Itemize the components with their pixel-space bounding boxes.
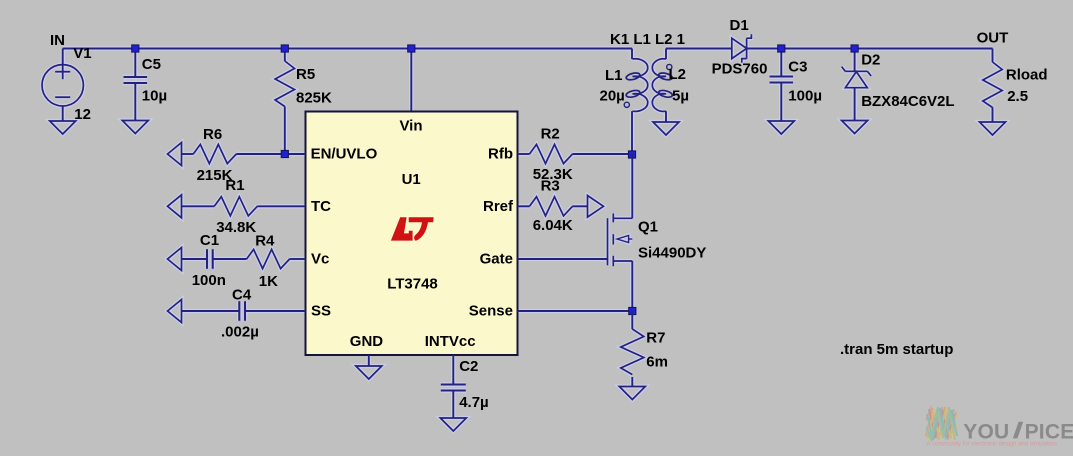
ground R6 left	[168, 143, 182, 166]
wire INTVcc to C2	[452, 355, 454, 385]
svg-text:K1 L1 L2 1: K1 L1 L2 1	[610, 31, 685, 48]
wire C4 to SS	[245, 310, 306, 312]
resistor R1	[214, 197, 257, 216]
svg-text:EN/UVLO: EN/UVLO	[311, 145, 378, 162]
wire C5 top	[134, 49, 136, 78]
op-amp U1 LT3748 body	[306, 112, 518, 356]
wire OUT down	[992, 49, 994, 63]
resistor R4	[247, 249, 290, 268]
capacitor C2	[441, 383, 466, 385]
svg-text:2.5: 2.5	[1007, 88, 1028, 105]
svg-text:TC: TC	[311, 198, 331, 215]
wire D2 to ground	[854, 88, 856, 121]
svg-text:A community for electronic des: A community for electronic design and si…	[927, 440, 1058, 447]
wire C1 to R4	[213, 258, 247, 260]
svg-text:L1: L1	[605, 67, 623, 84]
svg-text:100n: 100n	[192, 272, 226, 289]
wire C3 to ground	[780, 83, 782, 122]
svg-text:D2: D2	[861, 51, 880, 68]
wire D2 top	[854, 49, 856, 72]
svg-text:Gate: Gate	[480, 250, 513, 267]
svg-text:C4: C4	[232, 287, 252, 304]
junction C5 top	[132, 45, 139, 52]
svg-text:4.7µ: 4.7µ	[459, 394, 489, 411]
wire R3 right	[573, 205, 588, 207]
junction drain node	[628, 151, 635, 158]
svg-text:6.04K: 6.04K	[533, 217, 573, 234]
svg-text:Rfb: Rfb	[488, 145, 513, 162]
wire L1 top	[631, 49, 633, 60]
ground GND pin	[356, 366, 382, 379]
resistor R7	[621, 329, 644, 375]
ground Rload	[980, 122, 1006, 135]
resistor R2	[530, 144, 573, 163]
wire R5 bottom	[284, 107, 286, 155]
junction EN/UVLO node	[281, 150, 288, 157]
ground R7	[619, 387, 645, 400]
capacitor C1	[206, 249, 208, 269]
svg-text:C2: C2	[459, 358, 478, 375]
svg-text:Vin: Vin	[399, 118, 422, 135]
svg-text:R4: R4	[255, 233, 275, 250]
svg-text:34.8K: 34.8K	[216, 219, 256, 236]
capacitor C5	[124, 76, 148, 78]
wire C2 to ground	[452, 391, 454, 419]
ground V1	[50, 121, 76, 134]
svg-text:.002µ: .002µ	[221, 324, 259, 341]
inductor L1	[633, 59, 648, 112]
ground R3 right arrow	[588, 196, 604, 218]
Q1 body arrow	[617, 235, 629, 242]
svg-text:OUT: OUT	[977, 29, 1009, 46]
ground D2	[842, 121, 868, 134]
ground C5	[122, 121, 148, 134]
wire V1 to rail	[62, 49, 64, 66]
wire L2 to D1 anode	[666, 48, 732, 50]
svg-text:Rload: Rload	[1006, 67, 1048, 84]
svg-text:PDS760: PDS760	[712, 61, 768, 78]
svg-text:Q1: Q1	[638, 219, 658, 236]
transistor Q1 nmos	[607, 218, 609, 265]
svg-text:6m: 6m	[646, 353, 668, 370]
svg-text:IN: IN	[50, 32, 65, 49]
svg-text:1K: 1K	[259, 273, 278, 290]
svg-text:C1: C1	[200, 232, 219, 249]
svg-text:V1: V1	[73, 45, 91, 62]
svg-text:GND: GND	[350, 333, 384, 350]
resistor Rload	[983, 62, 1002, 108]
YOUSPICE watermark logo waves	[926, 407, 957, 440]
wire top rail IN to transformer	[63, 48, 632, 50]
svg-text:R2: R2	[541, 125, 560, 142]
svg-text:R1: R1	[225, 177, 244, 194]
svg-text:10µ: 10µ	[142, 87, 167, 104]
svg-text:825K: 825K	[296, 89, 332, 106]
resistor R5	[275, 61, 294, 107]
ground C3	[768, 121, 794, 134]
svg-text:LT3748: LT3748	[387, 275, 438, 292]
wire L2 bottom to ground	[665, 111, 667, 122]
wire R6 to EN/UVLO	[236, 153, 305, 155]
svg-text:INTVcc: INTVcc	[425, 333, 476, 350]
svg-text:20µ: 20µ	[600, 88, 625, 105]
junction Vin	[408, 45, 415, 52]
resistor R6	[193, 144, 236, 163]
inductor L2	[652, 59, 666, 112]
ground L2	[653, 122, 679, 135]
svg-text:5µ: 5µ	[672, 88, 689, 105]
wire R1 left	[182, 205, 215, 207]
svg-text:L2: L2	[669, 66, 687, 83]
svg-text:Rref: Rref	[483, 198, 514, 215]
capacitor C4	[238, 301, 240, 321]
ground C2	[440, 418, 466, 431]
wire D1 cathode to OUT rail	[747, 48, 993, 50]
svg-text:C3: C3	[788, 58, 807, 75]
wire V1 to ground	[62, 106, 64, 121]
wire Vin stub	[410, 49, 412, 113]
ground C1 left	[168, 248, 182, 271]
U1 logo Linear Technology	[391, 217, 434, 241]
junction C3 top	[778, 45, 785, 52]
junction D2 top	[851, 45, 858, 52]
wire GND pin	[368, 355, 370, 366]
svg-text:Si4490DY: Si4490DY	[638, 245, 706, 262]
svg-text:R6: R6	[203, 126, 222, 143]
svg-text:100µ: 100µ	[788, 87, 822, 104]
wire Rload to ground	[992, 107, 994, 122]
wire sense node to R7	[631, 311, 633, 329]
wire L1 bottom to drain node	[631, 111, 633, 154]
wire Q1 source to sense node	[631, 261, 633, 311]
svg-text:R3: R3	[541, 178, 560, 195]
svg-text:Vc: Vc	[311, 250, 329, 267]
svg-text:SS: SS	[311, 302, 331, 319]
wire Gate to Q1	[518, 258, 608, 260]
zener diode D2	[845, 72, 867, 88]
wire R1 to TC	[257, 205, 305, 207]
capacitor C3	[770, 75, 794, 77]
diode D1 schottky	[732, 38, 747, 58]
wire C1 left	[182, 258, 208, 260]
svg-text:BZX84C6V2L: BZX84C6V2L	[861, 93, 954, 110]
wire R4 to Vc	[290, 258, 306, 260]
wire R7 to ground	[631, 377, 633, 387]
junction sense node	[629, 307, 636, 314]
wire C5 to ground	[134, 83, 136, 121]
ground C4 left	[168, 300, 182, 323]
junction R5 top	[281, 45, 288, 52]
svg-text:D1: D1	[730, 17, 749, 34]
L1 phase dot	[624, 102, 629, 107]
svg-text:C5: C5	[142, 56, 161, 73]
L2 phase dot	[667, 64, 672, 69]
ground R1 left	[168, 195, 182, 218]
wire R2 to drain node	[573, 153, 633, 155]
svg-text:R5: R5	[296, 66, 315, 83]
resistor R3	[530, 197, 573, 216]
wire R5 top	[284, 49, 286, 62]
wire L2 top	[665, 49, 667, 60]
svg-text:U1: U1	[402, 171, 421, 188]
wire Rfb to R2	[518, 153, 530, 155]
wire C4 left	[182, 310, 240, 312]
wire Rref to R3	[518, 205, 530, 207]
wire R6 left	[182, 153, 194, 155]
wire C3 top	[780, 49, 782, 77]
voltage source V1	[42, 65, 83, 106]
wire Sense to source node	[518, 310, 633, 312]
svg-text:Sense: Sense	[469, 302, 513, 319]
svg-text:.tran 5m startup: .tran 5m startup	[840, 341, 953, 358]
wire Q1 drain	[631, 154, 633, 218]
svg-text:R7: R7	[646, 330, 665, 347]
